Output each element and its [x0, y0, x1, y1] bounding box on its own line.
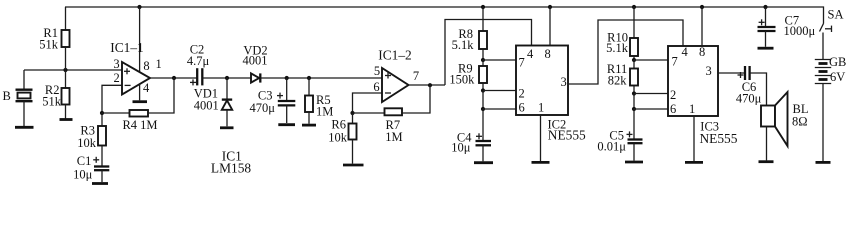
svg-text:B: B: [3, 89, 11, 103]
svg-text:R4 1M: R4 1M: [122, 118, 157, 132]
op-amp IC1-1: [122, 62, 150, 95]
svg-text:51k: 51k: [42, 95, 62, 109]
svg-text:10k: 10k: [77, 136, 97, 150]
svg-text:NE555: NE555: [700, 131, 738, 146]
svg-text:4.7μ: 4.7μ: [187, 54, 210, 68]
node R10/R11 pin7: [632, 58, 636, 62]
resistor R5: [308, 78, 310, 96]
op-amp IC1-2: [353, 93, 383, 113]
ground below C4: [474, 161, 493, 164]
resistor R4 feedback: [100, 111, 104, 115]
node pin6: [481, 107, 485, 111]
svg-text:470μ: 470μ: [250, 101, 276, 115]
node pin2 IC3: [632, 91, 636, 95]
ground below IC2: [532, 161, 550, 164]
ground below VD1: [220, 126, 234, 129]
capacitor C3: [286, 78, 288, 100]
wire output IC1-2: [409, 84, 446, 86]
resistor R1: [65, 7, 67, 30]
resistor R10: [632, 5, 636, 9]
svg-text:SA: SA: [828, 8, 844, 22]
capacitor C4: [482, 109, 484, 140]
wire pin2 input: [102, 85, 122, 113]
IC3 NE555: [668, 46, 718, 116]
svg-text:6: 6: [373, 80, 379, 94]
wire C6 to speaker: [750, 73, 767, 106]
ground below C5: [625, 161, 643, 164]
node junction R1/R2: [63, 68, 67, 72]
wire IC2 pin1 to ground: [540, 115, 542, 161]
wire VD2 to IC1-2 pin5: [260, 77, 382, 79]
svg-text:NE555: NE555: [548, 128, 586, 143]
resistor R8: [481, 5, 485, 9]
node pin6 IC3: [632, 107, 636, 111]
capacitor C2: [196, 68, 198, 85]
svg-text:1: 1: [538, 101, 544, 115]
capacitor C7: [763, 5, 767, 9]
svg-text:10μ: 10μ: [73, 168, 93, 182]
wire IC3 pin1 to ground: [693, 116, 695, 161]
svg-text:GB: GB: [829, 55, 846, 69]
wire op-amp pin 4 to ground: [139, 84, 141, 100]
svg-text:IC1–2: IC1–2: [378, 48, 411, 63]
svg-text:7: 7: [519, 56, 525, 70]
ground below battery: [816, 161, 831, 164]
ground below R5: [302, 124, 316, 127]
svg-text:4001: 4001: [243, 54, 268, 68]
svg-text:2: 2: [519, 87, 525, 101]
svg-text:1: 1: [156, 57, 162, 71]
svg-text:6V: 6V: [830, 70, 845, 84]
wire C2 to VD2: [203, 77, 252, 79]
wire IC1-2 output to IC2 pin4: [445, 20, 532, 86]
resistor R7 feedback: [350, 111, 354, 115]
svg-text:0.01μ: 0.01μ: [597, 140, 626, 154]
battery GB: [815, 59, 831, 61]
diode VD1: [226, 78, 228, 99]
resistor R2: [65, 70, 67, 88]
svg-text:7: 7: [413, 69, 419, 83]
ground below C7: [758, 47, 774, 50]
node pin2: [481, 88, 485, 92]
svg-text:1M: 1M: [316, 105, 333, 119]
ground below C1: [92, 182, 108, 185]
resistor R3: [101, 113, 103, 126]
ground below IC1-1: [133, 100, 148, 103]
node output IC1-1: [150, 77, 197, 79]
capacitor C1: [94, 165, 109, 167]
capacitor C5: [633, 109, 635, 139]
svg-text:5.1k: 5.1k: [452, 38, 475, 52]
svg-text:51k: 51k: [39, 37, 59, 51]
wire IC3 pin8 to rail: [700, 5, 704, 9]
svg-text:10μ: 10μ: [451, 141, 471, 155]
capacitor C6: [744, 66, 746, 80]
svg-text:IC1–1: IC1–1: [110, 40, 143, 55]
svg-text:82k: 82k: [608, 74, 628, 88]
resistor R9: [482, 60, 484, 66]
svg-text:6: 6: [519, 101, 525, 115]
svg-text:8: 8: [143, 59, 149, 73]
wire input line node A: [24, 69, 122, 71]
resistor R11: [633, 60, 635, 68]
svg-text:3: 3: [706, 64, 712, 78]
svg-text:2: 2: [113, 71, 119, 85]
svg-text:8: 8: [545, 47, 551, 61]
speaker BL: [761, 106, 775, 127]
svg-text:8: 8: [699, 45, 705, 59]
svg-text:8Ω: 8Ω: [792, 115, 808, 129]
svg-text:4001: 4001: [194, 99, 219, 113]
svg-text:3: 3: [113, 57, 119, 71]
wire IC2 pin8 to rail: [548, 5, 552, 9]
svg-text:4: 4: [682, 45, 689, 59]
ground below R6: [343, 164, 364, 167]
IC2 NE555: [516, 46, 568, 116]
microphone B: [23, 70, 25, 89]
svg-text:5.1k: 5.1k: [606, 41, 629, 55]
svg-text:1M: 1M: [385, 130, 402, 144]
resistor R6: [352, 113, 354, 124]
svg-text:470μ: 470μ: [736, 91, 762, 105]
wire IC3 pin3 to C6: [718, 72, 745, 74]
svg-text:150k: 150k: [449, 73, 475, 87]
svg-text:1000μ: 1000μ: [784, 24, 816, 38]
node R8/R9 pin7: [481, 58, 485, 62]
ground below speaker: [759, 160, 774, 163]
svg-text:7: 7: [672, 55, 678, 69]
wire IC2 pin3 to IC3 pin4: [568, 20, 683, 84]
ground below R2: [60, 118, 73, 121]
svg-text:5: 5: [374, 64, 380, 78]
svg-text:1: 1: [689, 102, 695, 116]
svg-text:10k: 10k: [328, 131, 348, 145]
wire pin2 to pin6: [482, 91, 484, 110]
diode VD2: [251, 73, 259, 82]
ground below B: [15, 126, 34, 129]
ground below IC3: [685, 161, 703, 164]
wire pin2 to pin6 IC3: [633, 94, 635, 110]
svg-text:4: 4: [143, 81, 150, 95]
svg-text:C1: C1: [77, 154, 92, 168]
svg-text:2: 2: [670, 88, 676, 102]
svg-text:3: 3: [561, 75, 567, 89]
ground below C3: [278, 123, 295, 126]
svg-text:R6: R6: [331, 118, 346, 132]
svg-text:LM158: LM158: [211, 160, 251, 175]
wire top supply rail: [65, 7, 824, 24]
wire op-amp pin 8 to rail: [137, 5, 141, 9]
svg-text:6: 6: [670, 102, 676, 116]
svg-text:4: 4: [527, 47, 534, 61]
